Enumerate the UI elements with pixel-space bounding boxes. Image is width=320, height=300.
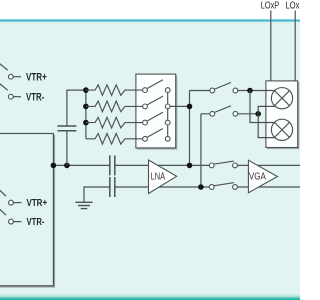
label LOxP — [261, 1, 279, 12]
switch K1 contacts — [143, 88, 171, 93]
switch S2 contact — [8, 94, 13, 99]
wire S3 stub — [14, 202, 22, 204]
wire S4 stub — [14, 221, 22, 223]
wire LO P input — [270, 11, 272, 81]
switch S5 contacts — [210, 88, 238, 93]
wire rail B mid segment — [115, 186, 210, 188]
ground — [75, 202, 92, 208]
wire mixer N to upper mixer — [258, 106, 275, 113]
capacitor C1 — [57, 126, 76, 131]
label VTR- (lower) — [27, 217, 45, 228]
switch S7 arm — [214, 161, 234, 164]
resistor R1 — [86, 85, 143, 96]
switch S5 arm — [215, 83, 231, 90]
svg-text:VTR-: VTR- — [27, 217, 45, 228]
svg-text:VGA: VGA — [249, 171, 266, 182]
switch S6 arm — [215, 106, 231, 113]
switch K2 contacts — [143, 104, 171, 109]
wire C1 branch vertical — [67, 90, 86, 165]
svg-text:VTR+: VTR+ — [26, 72, 47, 84]
switch S7 contacts — [209, 163, 237, 168]
wire rail B right segment — [237, 186, 300, 188]
chip boundary bottom edge — [0, 294, 300, 300]
wire rail B riser — [200, 114, 202, 187]
switch S1 arm — [0, 62, 8, 70]
wire LO N input — [294, 11, 296, 81]
node riser / rail B — [198, 184, 204, 190]
switch S2 arm — [0, 82, 8, 90]
node riser / switch-bank output — [187, 104, 193, 110]
label LOxN — [286, 1, 305, 12]
svg-text:LOxP: LOxP — [261, 1, 279, 12]
svg-text:VTR-: VTR- — [26, 92, 44, 104]
wire rail B left segment — [84, 187, 110, 202]
resistor R4 — [86, 134, 143, 145]
svg-text:VTR+: VTR+ — [27, 198, 48, 209]
node bus row 1 — [83, 87, 89, 93]
node bus row 3 — [83, 120, 89, 126]
wire rail E to mixer N — [201, 113, 258, 115]
wire mixer N to lower mixer — [258, 114, 275, 138]
wire resistor bus — [85, 90, 87, 139]
label VTR+ (upper) — [26, 72, 47, 84]
wire rail C to mixer P — [190, 90, 275, 92]
switch K1 arm — [147, 80, 163, 89]
chip boundary top edge — [0, 19, 300, 23]
wire switch-bank output — [168, 105, 190, 107]
node junction rail A / C1 branch — [64, 163, 70, 169]
label VTR+ (lower) — [27, 198, 48, 209]
switch matrix box — [136, 74, 177, 149]
node mixer P junction — [247, 88, 253, 94]
VTR input block box — [0, 134, 55, 288]
wire LNA output riser — [189, 91, 191, 166]
wire rail A left segment — [53, 164, 109, 166]
capacitor C2 (rail A series) — [110, 155, 115, 175]
node bus row 2 — [83, 104, 89, 110]
mixer block box — [266, 81, 299, 149]
switch K4 arm — [147, 129, 163, 138]
switch S8 contacts — [209, 185, 237, 190]
capacitor C3 (rail B series) — [110, 177, 115, 197]
wire S1 stub — [13, 76, 21, 78]
mixer M1 — [271, 88, 292, 109]
switch S3 contact — [9, 200, 14, 205]
svg-text:LOxN: LOxN — [286, 1, 300, 12]
svg-text:LNA: LNA — [151, 171, 166, 182]
switch S4 arm (inside VTR box) — [0, 208, 6, 216]
switch S1 contact — [8, 74, 13, 79]
resistor R2 — [86, 101, 143, 112]
switch K2 arm — [147, 96, 163, 105]
switch K3 contacts — [143, 120, 171, 125]
switch S6 contacts — [210, 111, 238, 116]
wire rail A right segment — [237, 164, 300, 166]
wire mixer P to lower mixer — [250, 91, 274, 123]
label VTR- (upper) — [26, 92, 44, 104]
node mixer N junction — [255, 111, 261, 117]
op-amp VGA — [248, 160, 277, 193]
op-amp LNA — [149, 160, 177, 194]
node riser / rail A — [187, 163, 193, 169]
switch S8 arm — [214, 183, 234, 186]
switch S4 contact — [9, 219, 14, 224]
resistor R3 — [86, 117, 143, 128]
wire rail A mid segment — [115, 164, 210, 166]
node junction on VTR box edge — [51, 163, 57, 169]
switch K4 contacts — [143, 136, 171, 141]
switch S3 arm (inside VTR box) — [0, 189, 6, 197]
wire switch-bank common bus — [167, 90, 169, 139]
switch K3 arm — [147, 112, 163, 121]
wire S2 stub — [13, 96, 21, 98]
mixer M2 — [271, 119, 292, 140]
